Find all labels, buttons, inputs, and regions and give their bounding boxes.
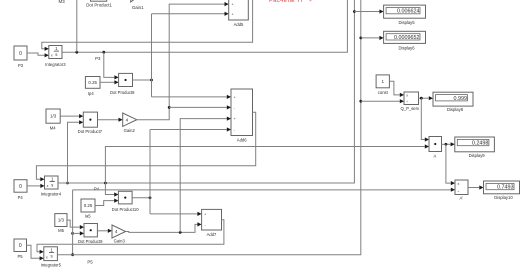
- divide Q_P_serv: [400, 92, 420, 111]
- wire gain2 output up to add5 in1: [137, 2, 229, 120]
- svg-text:Dot Product9: Dot Product9: [78, 239, 103, 244]
- svg-text:4: 4: [115, 229, 118, 234]
- svg-text:+: +: [232, 3, 234, 7]
- svg-text:P4: P4: [94, 186, 100, 191]
- divide A-prime: [455, 180, 468, 200]
- wire add5 output feedback loop to integrator3: [42, 0, 253, 51]
- constant 1/3 M5: [55, 214, 67, 233]
- junction P4 to dot-product7: [66, 182, 69, 185]
- wire P5 branch to dot-product9 in2: [73, 231, 84, 235]
- svg-text:M4: M4: [50, 125, 56, 130]
- svg-text:1/3: 1/3: [50, 114, 57, 119]
- wire M5 to dot-product9 in1: [67, 220, 84, 229]
- wire P5 vertical up to A-prime line: [72, 190, 74, 255]
- junction P5 to Q_P_serv: [359, 100, 362, 103]
- svg-text:x: x: [406, 94, 408, 98]
- wire gain3 output to add7 in2: [126, 222, 202, 232]
- wire vertical dot-product10 net: [149, 130, 151, 214]
- wire add6 output loop to integrator4: [36, 112, 255, 181]
- wire Ip4 to dot-product8 in2: [100, 80, 119, 84]
- svg-text:x: x: [458, 182, 460, 186]
- label P5 net: [87, 260, 93, 265]
- wire const0 to integrator4 x0: [27, 184, 45, 188]
- wire P5 line to divide in2 (A-prime): [73, 188, 455, 192]
- wire dot-product10 output: [132, 197, 150, 199]
- svg-text:Dot Product8: Dot Product8: [110, 90, 135, 95]
- dot-product8: [110, 73, 135, 95]
- svg-text:0.7493: 0.7493: [497, 185, 514, 191]
- adder Add5 (cropped top): [229, 0, 249, 27]
- svg-text:Add7: Add7: [207, 232, 217, 237]
- constant 0.25 Ia5: [81, 199, 95, 219]
- junction P5 at output line: [71, 253, 74, 256]
- svg-text:x: x: [47, 184, 49, 188]
- integrator5: [41, 247, 62, 268]
- wire P5 line from integrator5 to right: [57, 0, 360, 255]
- svg-text:M5: M5: [58, 228, 64, 233]
- svg-text:Display8: Display8: [447, 107, 464, 112]
- integrator4: [41, 176, 62, 196]
- svg-text:P5: P5: [17, 254, 23, 259]
- wire M4 to dot-product7 in1: [60, 114, 83, 118]
- svg-text:0: 0: [19, 51, 22, 57]
- adder Add7: [202, 209, 222, 236]
- junction P5 to display6: [359, 37, 362, 40]
- svg-text:P4: P4: [18, 195, 24, 200]
- svg-text:Dot Product10: Dot Product10: [112, 207, 139, 212]
- svg-text:+: +: [309, 0, 312, 4]
- wire P4 line from integrator4 to top right: [58, 0, 354, 183]
- constant 0 (P4 initial): [14, 180, 27, 200]
- constant 0.25 Ip4: [85, 77, 100, 97]
- svg-text:Gain2: Gain2: [124, 128, 136, 133]
- wire dot-product8 output to vertical: [133, 79, 152, 81]
- wire P3 up to dot-product1 (cropped): [76, 0, 78, 52]
- svg-text:+: +: [234, 117, 236, 121]
- wire vertical dot-product8 net: [151, 14, 153, 97]
- svg-text:A: A: [434, 153, 437, 158]
- svg-text:0: 0: [19, 243, 22, 249]
- svg-text:0.006624: 0.006624: [397, 9, 419, 15]
- label P3 net: [95, 56, 101, 61]
- gain G2 (x4): [123, 113, 137, 133]
- wire dot-product10 net to add6 in4: [150, 127, 231, 131]
- label M3 (cropped block above): [59, 0, 66, 4]
- svg-text:1/3: 1/3: [58, 218, 65, 223]
- wire P5 to Q_P_serv in2: [361, 99, 404, 103]
- display5: [384, 5, 426, 25]
- display8: [433, 92, 473, 112]
- red annotation text (cropped): [269, 0, 312, 4]
- svg-text:Ip4: Ip4: [88, 91, 94, 96]
- svg-text:Integrator3: Integrator3: [45, 62, 66, 67]
- wire P4 to display5: [354, 9, 383, 13]
- svg-text:÷: ÷: [406, 100, 408, 104]
- wire const0 to integrator3 x0 port: [27, 53, 49, 57]
- constant 0 (P3 initial): [14, 46, 27, 68]
- wire const0 to integrator5 x0: [27, 245, 44, 260]
- wire dot-product8 net to add5 in2: [152, 12, 229, 16]
- svg-text:Integrator4: Integrator4: [41, 191, 62, 196]
- svg-text:1: 1: [381, 79, 384, 84]
- adder Add6: [231, 89, 253, 143]
- svg-text:+: +: [234, 96, 236, 100]
- junction Q_P_serv output: [420, 97, 423, 100]
- svg-text:Add6: Add6: [237, 138, 247, 143]
- gain G3 (x4): [112, 225, 126, 244]
- junction P5 to dot-product9: [71, 232, 74, 235]
- junction dot-product8 net: [150, 79, 153, 82]
- svg-text:4: 4: [126, 117, 129, 122]
- wire Q_P_serv output to display8: [419, 96, 434, 100]
- dot-product7: [78, 112, 103, 134]
- wire A-prime output to display10: [468, 185, 484, 189]
- svg-text:Display10: Display10: [494, 195, 513, 200]
- svg-text:+: +: [232, 12, 234, 16]
- junction P3 to dot-product1: [75, 51, 78, 54]
- svg-text:Display5: Display5: [399, 20, 416, 25]
- wire P4 branch down to dot-product10 in1: [105, 183, 118, 197]
- wire dot-product9 to gain3: [97, 229, 112, 233]
- constant 0 (P5 initial): [14, 239, 27, 259]
- svg-text:Q_P_serv: Q_P_serv: [400, 106, 420, 111]
- constant 1/3 M4: [46, 109, 60, 130]
- display10: [484, 181, 520, 200]
- wire dot-product8 net to add6 in1: [152, 95, 232, 99]
- svg-text:Display6: Display6: [399, 46, 416, 51]
- svg-text:Add5: Add5: [234, 22, 244, 27]
- svg-text:Расчеты ТГ: Расчеты ТГ: [269, 0, 305, 4]
- label Dot Product1: [86, 3, 112, 8]
- svg-text:Dot Product7: Dot Product7: [78, 129, 103, 134]
- junction P3 to dot-product8: [102, 51, 105, 54]
- svg-text:0.0009652: 0.0009652: [394, 35, 419, 41]
- svg-text:M3: M3: [59, 0, 66, 4]
- wire gain3 net up to add6 in3: [180, 117, 231, 233]
- junction A output: [445, 143, 448, 146]
- display9: [455, 137, 495, 158]
- svg-text:Gain1: Gain1: [132, 5, 144, 10]
- wire P5 to display6: [361, 36, 384, 40]
- wire add7 output loop to integrator5: [37, 220, 224, 254]
- svg-text:0.2498: 0.2498: [472, 141, 489, 147]
- svg-text:P3: P3: [18, 63, 24, 68]
- wire P4 branch up to A product in2: [105, 144, 429, 183]
- product A: [429, 137, 442, 159]
- svg-text:x: x: [46, 255, 48, 259]
- svg-text:Integrator5: Integrator5: [41, 262, 62, 267]
- wire P3 down to dot-product8 in1: [104, 52, 119, 79]
- svg-text:0.25: 0.25: [84, 203, 93, 208]
- svg-text:const: const: [378, 90, 389, 95]
- wire A output down to divide in1: [446, 144, 455, 185]
- junction gain3 net to add6: [179, 231, 182, 234]
- svg-text:P5: P5: [87, 260, 93, 265]
- dot-product9: [78, 224, 103, 244]
- wire Q_P_serv to A product in1: [421, 98, 429, 141]
- wire Ia5 to dot-product10 in2: [95, 199, 118, 206]
- wire dot-product10 net to add7 in1: [150, 212, 202, 216]
- svg-text:0.999: 0.999: [454, 96, 468, 102]
- svg-text:0: 0: [19, 184, 22, 190]
- svg-text:P3: P3: [95, 56, 101, 61]
- wire P4 up to dot-product7 in2: [68, 120, 84, 183]
- wire dot-product7 to gain2: [98, 118, 123, 122]
- svg-text:0.25: 0.25: [88, 80, 97, 85]
- svg-text:+: +: [204, 212, 206, 216]
- svg-text:Gain3: Gain3: [114, 239, 126, 244]
- label P4 net: [94, 186, 100, 191]
- gain G1 sliver (cropped): [131, 0, 139, 2]
- wire A output to display9: [442, 142, 455, 146]
- junction dot-product10 net: [149, 196, 152, 199]
- svg-text:Display9: Display9: [469, 153, 486, 158]
- wire const to Q_P_serv in1: [389, 81, 404, 97]
- svg-text:÷: ÷: [457, 189, 459, 193]
- dot-product10: [112, 191, 139, 212]
- junction gain2 net to add6: [168, 106, 171, 109]
- junction P4 vertical to display5: [353, 10, 356, 13]
- constant 1 (const): [376, 75, 389, 95]
- integrator3: [45, 46, 66, 67]
- wire gain2 net to add6 in2: [169, 105, 231, 109]
- label Gain1: [132, 5, 144, 10]
- wire P3 line from integrator3 to top right: [62, 0, 347, 52]
- dot-product1 block sliver (cropped): [91, 0, 107, 1]
- svg-text:x: x: [51, 53, 53, 57]
- display6: [384, 31, 426, 50]
- junction P4 to A-product line: [104, 182, 107, 185]
- svg-text:Dot Product1: Dot Product1: [86, 3, 112, 8]
- svg-text:A': A': [460, 195, 464, 200]
- svg-text:Ia5: Ia5: [85, 214, 91, 219]
